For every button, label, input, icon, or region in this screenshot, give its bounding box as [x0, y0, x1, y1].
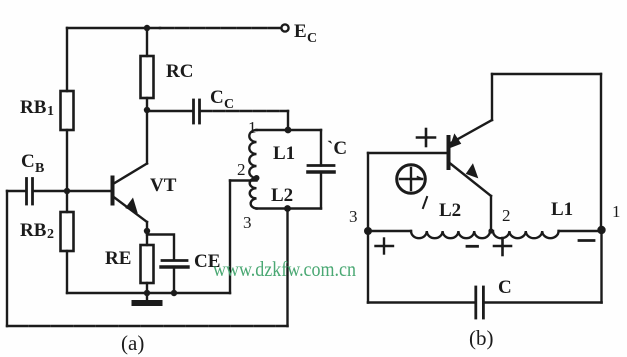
- wire CC to tank: [200, 111, 288, 130]
- wire ground rail: [67, 292, 230, 294]
- label (a): [121, 331, 144, 355]
- wire b right vertical down: [600, 231, 602, 303]
- svg-text:3: 3: [349, 207, 358, 226]
- transistor VT: [113, 164, 148, 223]
- svg-text:L2: L2: [271, 185, 293, 206]
- label CB: [21, 151, 44, 176]
- wire emitter to RE: [146, 222, 148, 245]
- label C b: [498, 277, 512, 298]
- svg-text:RB: RB: [20, 220, 47, 241]
- svg-text:2: 2: [237, 160, 246, 179]
- label L1 b: [551, 199, 573, 220]
- capacitor CC: [147, 100, 200, 123]
- svg-text:B: B: [35, 161, 44, 176]
- wire left rail down: [6, 191, 8, 326]
- svg-text:3: 3: [243, 213, 252, 232]
- node b node3: [364, 227, 372, 235]
- wire feedback vertical: [286, 209, 288, 327]
- capacitor C tank: [308, 130, 334, 209]
- svg-text:C: C: [498, 277, 512, 298]
- svg-text:RC: RC: [166, 61, 193, 82]
- svg-text:E: E: [294, 21, 307, 42]
- label CC: [210, 87, 234, 112]
- wire top rail left: [67, 27, 160, 29]
- node emitter junction: [144, 228, 150, 234]
- label VT: [150, 175, 177, 196]
- capacitor CE: [161, 261, 188, 294]
- label RB1: [20, 97, 54, 119]
- svg-text:L1: L1: [551, 199, 573, 220]
- svg-text:1: 1: [612, 202, 621, 221]
- label L2 tank: [271, 185, 293, 206]
- tick mark near L2: [423, 197, 427, 208]
- wire b coil right lead: [559, 230, 602, 232]
- wire RB1 to base node: [66, 130, 68, 191]
- svg-text:C: C: [307, 31, 317, 46]
- wire bottom rail: [7, 325, 288, 327]
- svg-text:2: 2: [502, 206, 511, 225]
- resistor RC: [141, 56, 154, 98]
- wire tank bottom: [257, 207, 322, 209]
- label (b): [469, 326, 494, 350]
- wire b right vertical: [600, 74, 602, 231]
- wire b top rail: [492, 73, 601, 75]
- wire emitter to CE: [147, 235, 174, 261]
- wire tap to left: [230, 179, 257, 181]
- svg-text:(a): (a): [121, 331, 144, 355]
- inductor L2 b: [411, 231, 490, 238]
- terminal EC: [281, 24, 288, 31]
- wire RC bottom lead: [146, 98, 148, 110]
- label L1 tank: [273, 143, 295, 164]
- node RE bottom junction: [144, 290, 150, 296]
- wire b base: [368, 152, 448, 154]
- node tank bottom junction: [284, 205, 291, 212]
- label RE: [105, 248, 131, 269]
- label node 1 tank: [248, 118, 257, 137]
- label node 3 tank: [243, 213, 252, 232]
- svg-text:C: C: [224, 97, 234, 112]
- wire top rail right (to EC): [160, 27, 281, 29]
- polarity minus below node1: [579, 239, 594, 242]
- label RC: [166, 61, 193, 82]
- svg-text:2: 2: [47, 227, 54, 242]
- svg-text:C: C: [210, 87, 224, 108]
- svg-text:1: 1: [248, 118, 257, 137]
- wire b coil left lead: [368, 230, 411, 232]
- label node 1 b: [612, 202, 621, 221]
- source circled plus: [397, 165, 426, 194]
- label L2 b: [439, 200, 461, 221]
- wire base lead: [67, 190, 111, 192]
- inductor L1: [249, 130, 256, 178]
- svg-text:RE: RE: [105, 248, 131, 269]
- label CE: [194, 251, 220, 272]
- capacitor C b: [368, 287, 602, 318]
- wire tap vertical down: [229, 181, 231, 294]
- svg-text:L2: L2: [439, 200, 461, 221]
- resistor RB2: [61, 212, 74, 251]
- node b node1: [597, 226, 605, 234]
- label node 3 b: [349, 207, 358, 226]
- wire left vertical to RB1: [66, 28, 68, 91]
- ground: [135, 293, 160, 303]
- label EC: [294, 21, 317, 46]
- wire tank top: [257, 129, 322, 131]
- svg-text:`C: `C: [327, 138, 347, 159]
- label node 2 tank: [237, 160, 246, 179]
- wire b left vertical: [367, 153, 369, 231]
- label RB2: [20, 220, 54, 242]
- node tank top junction: [285, 127, 292, 134]
- svg-text:VT: VT: [150, 175, 177, 196]
- node CE bottom junction: [171, 290, 177, 296]
- wire RE bottom lead: [146, 283, 148, 293]
- node tap junction: [254, 175, 260, 181]
- node top rail junction: [144, 25, 150, 31]
- node base junction: [64, 188, 70, 194]
- wire collector vertical: [146, 110, 148, 164]
- svg-text:RB: RB: [20, 97, 47, 118]
- capacitor CB: [7, 179, 67, 205]
- polarity minus below L2: [467, 245, 478, 248]
- label C tank: [327, 138, 347, 159]
- wire b left vertical down: [367, 231, 369, 303]
- wire b emitter vertical: [490, 196, 492, 231]
- polarity plus below node2: [494, 238, 511, 255]
- wire b collector vertical: [491, 74, 493, 120]
- wire RC top lead: [146, 28, 148, 56]
- inductor L1 b: [493, 231, 559, 238]
- polarity plus below node3: [376, 239, 394, 254]
- svg-text:L1: L1: [273, 143, 295, 164]
- watermark: [213, 257, 356, 281]
- node collector junction: [144, 107, 150, 113]
- svg-text:www.dzkfw.com.cn: www.dzkfw.com.cn: [213, 257, 356, 281]
- resistor RB1: [61, 91, 74, 130]
- wire RB2 bottom lead: [66, 251, 68, 293]
- node b node2 junction: [488, 228, 493, 233]
- svg-text:C: C: [21, 151, 35, 172]
- inductor L2: [250, 178, 257, 209]
- svg-text:(b): (b): [469, 326, 494, 350]
- wire RB2 top lead: [66, 191, 68, 212]
- resistor RE: [141, 245, 154, 283]
- polarity plus above base: [417, 129, 435, 146]
- label node 2 b: [502, 206, 511, 225]
- svg-text:1: 1: [47, 104, 54, 119]
- transistor b: [449, 120, 493, 196]
